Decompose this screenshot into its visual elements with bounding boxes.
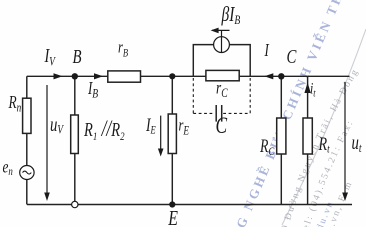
wire source to rail <box>26 179 28 204</box>
arrow IE measurement <box>160 116 162 154</box>
resistor Rt <box>303 118 312 154</box>
svg-text:rE: rE <box>179 117 190 138</box>
svg-text:I: I <box>264 41 270 60</box>
node C <box>278 73 284 79</box>
wire current-source loop left <box>193 45 213 77</box>
arrow uV measurement <box>46 85 48 198</box>
arrow IV on wire <box>54 73 63 79</box>
node open circle bottom <box>72 201 78 207</box>
svg-text:IV: IV <box>44 45 56 69</box>
node E <box>169 201 175 207</box>
current source arrow <box>212 29 230 31</box>
svg-text:it: it <box>310 80 316 100</box>
node rE top junction <box>169 73 175 79</box>
wire bottom rail <box>27 204 352 206</box>
resistor rB <box>108 71 141 82</box>
resistor Rn <box>23 98 31 133</box>
arrow ut measurement <box>344 82 346 198</box>
arrow I on wire <box>264 73 273 79</box>
svg-text:R1 //R2: R1 //R2 <box>83 117 125 144</box>
wire left branch lower <box>26 133 28 166</box>
svg-text:IB: IB <box>87 79 98 101</box>
svg-text:βIB: βIB <box>221 3 241 28</box>
arrow it up <box>304 83 310 94</box>
watermark stamp rim arc <box>282 29 366 225</box>
wire B branch <box>74 76 76 201</box>
wire top rail <box>27 75 350 77</box>
resistor R1//R2 <box>71 115 79 154</box>
wire Rt branch <box>307 76 309 204</box>
svg-text:Rn: Rn <box>8 93 22 115</box>
svg-text:E: E <box>167 207 178 227</box>
svg-text:B: B <box>73 45 82 68</box>
arrow IB on wire <box>94 73 103 79</box>
resistor rC <box>206 70 239 80</box>
svg-text:C: C <box>287 45 297 68</box>
svg-text:Rt: Rt <box>318 133 331 156</box>
svg-text:C: C <box>216 114 228 139</box>
svg-text:rB: rB <box>118 39 128 60</box>
dashed box for C <box>193 78 250 113</box>
svg-text:en: en <box>3 158 13 179</box>
svg-text:IE: IE <box>145 115 156 137</box>
source en <box>20 166 34 180</box>
capacitor C plates <box>215 105 217 122</box>
wire RC branch <box>280 76 282 204</box>
svg-text:rC: rC <box>216 79 228 101</box>
wire current-source loop right <box>229 45 250 77</box>
resistor RC <box>277 118 286 154</box>
resistor rE <box>168 114 176 154</box>
wire rE branch <box>171 76 173 204</box>
current source inner bar <box>221 31 223 53</box>
current source beta IB circle <box>214 37 230 53</box>
svg-text:ut: ut <box>352 131 363 156</box>
svg-text:uV: uV <box>50 113 64 137</box>
wire left branch upper <box>26 76 28 98</box>
node B <box>72 73 78 79</box>
sine symbol in en <box>23 171 32 174</box>
